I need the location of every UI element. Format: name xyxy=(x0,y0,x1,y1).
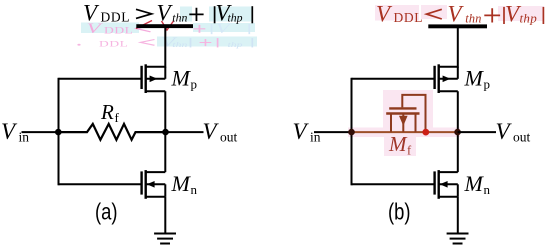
svg-text:DDL: DDL xyxy=(101,9,131,24)
svg-text:out: out xyxy=(220,130,238,145)
svg-text:n: n xyxy=(484,182,491,197)
node input junction dot (b) xyxy=(348,129,355,136)
svg-text:V: V xyxy=(448,1,465,26)
ground symbol (b) xyxy=(447,234,469,244)
svg-text:DDL: DDL xyxy=(104,26,134,35)
wire rail to Mp source (a) xyxy=(164,27,166,68)
svg-text:DDL: DDL xyxy=(394,10,424,25)
svg-text:M: M xyxy=(464,65,485,90)
svg-text:M: M xyxy=(464,171,485,196)
svg-text:(b): (b) xyxy=(388,199,411,225)
svg-text:V: V xyxy=(496,119,513,144)
ghost artifact pink text row1 (a) xyxy=(87,20,250,36)
wire gate feed Mn (b) xyxy=(352,183,434,185)
node output junction dot (b) xyxy=(454,129,461,136)
svg-text:V: V xyxy=(203,119,220,144)
transistor Mf (b) xyxy=(386,95,425,132)
wire Mn source to ground (a) xyxy=(164,197,166,234)
svg-text:p: p xyxy=(484,77,491,92)
node input junction dot (a) xyxy=(55,129,62,136)
node output junction dot (a) xyxy=(162,129,169,136)
ghost artifact red strokes on rail (a) xyxy=(136,21,174,31)
svg-text:thp: thp xyxy=(228,11,243,25)
wire Vin to input node (a) xyxy=(22,131,59,133)
wire Vin to input node (b) xyxy=(314,131,352,133)
svg-text:R: R xyxy=(100,100,114,124)
svg-text:thp: thp xyxy=(520,10,538,25)
wire feedback middle red (b) xyxy=(352,131,458,133)
resistor Rf (a) xyxy=(59,124,166,140)
svg-text:f: f xyxy=(115,110,120,125)
wire gate feed Mn (a) xyxy=(59,183,141,185)
svg-text:DDL: DDL xyxy=(99,40,129,49)
wire gate feed Mp (a) xyxy=(59,78,141,80)
wire Mn source to ground (b) xyxy=(457,197,459,234)
svg-text:n: n xyxy=(191,182,198,197)
svg-text:V: V xyxy=(157,1,174,26)
svg-text:thn: thn xyxy=(172,11,187,25)
wire output to Vout (b) xyxy=(458,131,496,133)
svg-text:M: M xyxy=(171,171,192,196)
title condition (a) xyxy=(83,1,252,26)
transistor Mp (a) xyxy=(142,64,166,93)
wire input vertical (b) xyxy=(351,78,353,186)
wire output to Vout (a) xyxy=(165,131,203,133)
transistor Mn (a) xyxy=(142,170,166,199)
svg-text:M: M xyxy=(388,132,408,156)
VDD supply rail (a) xyxy=(136,24,193,28)
wire input vertical (a) xyxy=(58,78,60,186)
VDD supply rail (b) xyxy=(428,24,487,28)
svg-text:thn: thn xyxy=(172,41,187,49)
title condition (b) xyxy=(376,1,543,26)
wire Mp drain to output node (b) xyxy=(457,91,459,172)
wire rail to Mp source (b) xyxy=(457,27,459,68)
wire gate feed Mp (b) xyxy=(352,78,434,80)
svg-text:thp: thp xyxy=(227,41,242,49)
node Mf gate junction red dot (b) xyxy=(422,129,429,136)
ghost artifact pink halo around Mf (b) xyxy=(348,5,544,156)
ghost artifact cyan band row1 (a) xyxy=(81,7,257,47)
svg-text:(a): (a) xyxy=(95,199,118,225)
svg-text:V: V xyxy=(1,119,18,144)
transistor Mn (b) xyxy=(435,170,458,199)
ghost artifact pink-blue text row2 (a) xyxy=(77,35,252,50)
transistor Mp (b) xyxy=(435,64,458,93)
svg-text:V: V xyxy=(293,119,310,144)
svg-text:out: out xyxy=(513,130,531,145)
wire Mp drain to output node (a) xyxy=(164,91,166,172)
svg-text:p: p xyxy=(191,77,198,92)
svg-text:M: M xyxy=(171,65,192,90)
ground symbol (a) xyxy=(154,234,176,244)
svg-text:thn: thn xyxy=(465,12,481,26)
